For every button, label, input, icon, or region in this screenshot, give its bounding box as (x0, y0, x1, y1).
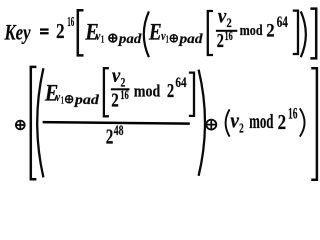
big left paren line1 (144, 11, 149, 57)
svg-text:Key: Key (4, 20, 31, 45)
svg-text:16: 16 (67, 15, 74, 30)
svg-text:2: 2 (239, 122, 244, 137)
svg-text:E: E (148, 20, 162, 45)
big right paren line1 (301, 11, 306, 57)
inner left bracket block2 (104, 68, 109, 116)
outer right bracket block2 (311, 68, 317, 180)
svg-text:2: 2 (217, 31, 224, 52)
xor in subscript 3 (66, 96, 73, 103)
svg-text:v: v (56, 89, 61, 104)
svg-text:mod: mod (249, 111, 273, 133)
fraction bar small line1 (216, 30, 237, 32)
svg-text:16: 16 (288, 106, 298, 123)
svg-text:16: 16 (120, 87, 129, 102)
big fraction bar (43, 121, 190, 125)
inner right bracket line1 (293, 11, 298, 54)
xor after fraction (206, 120, 216, 130)
svg-text:mod: mod (240, 23, 263, 39)
svg-text:2: 2 (106, 125, 114, 149)
outer left bracket line1 (78, 10, 84, 55)
inner right bracket block2 (189, 73, 194, 116)
svg-text:2: 2 (278, 110, 287, 134)
small right paren tail (300, 108, 305, 136)
fraction bar small block2 (111, 88, 130, 90)
xor in subscript 2 (170, 35, 177, 42)
xor in subscript 1 (109, 34, 117, 42)
svg-text:2: 2 (111, 90, 119, 111)
svg-text:pad: pad (118, 31, 142, 46)
svg-text:1: 1 (61, 96, 64, 107)
svg-text:2: 2 (56, 19, 65, 43)
svg-text:mod: mod (134, 82, 161, 101)
svg-text:1: 1 (101, 35, 104, 46)
svg-text:v: v (96, 28, 101, 43)
svg-text:64: 64 (175, 75, 187, 91)
svg-text:2: 2 (266, 21, 274, 42)
svg-text:1: 1 (166, 35, 169, 46)
outer left bracket block2 (31, 67, 37, 179)
small left paren tail (226, 109, 230, 136)
svg-text:48: 48 (114, 123, 124, 139)
big right paren block2 (199, 70, 205, 176)
big left paren block2 (37, 68, 43, 177)
svg-text:16: 16 (225, 28, 234, 43)
big xor between blocks (16, 121, 25, 130)
outer right bracket line1 (310, 9, 316, 59)
svg-text:pad: pad (74, 92, 99, 107)
svg-text:2: 2 (167, 81, 174, 102)
equals sign (40, 28, 49, 30)
svg-text:64: 64 (277, 14, 288, 31)
svg-text:v: v (230, 108, 239, 133)
svg-text:pad: pad (178, 31, 202, 46)
inner left bracket line1 (208, 11, 213, 55)
